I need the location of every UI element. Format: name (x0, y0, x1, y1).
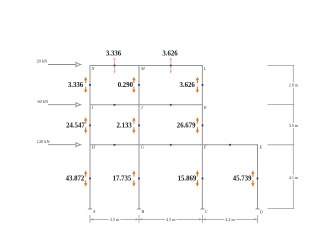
svg-text:4.2 m: 4.2 m (225, 217, 235, 222)
svg-text:I: I (91, 105, 94, 110)
svg-text:60 kN: 60 kN (38, 99, 49, 104)
svg-text:D: D (259, 209, 264, 214)
svg-text:3.626: 3.626 (180, 82, 196, 89)
svg-text:J: J (141, 105, 144, 110)
svg-text:3.336: 3.336 (68, 82, 84, 89)
svg-text:45.739: 45.739 (233, 176, 252, 183)
svg-text:43.872: 43.872 (66, 176, 85, 183)
svg-text:24.547: 24.547 (66, 123, 85, 130)
svg-text:4.5 m: 4.5 m (166, 217, 176, 222)
svg-text:4.1 m: 4.1 m (289, 175, 299, 180)
svg-text:M: M (140, 66, 145, 71)
svg-text:26.679: 26.679 (177, 123, 196, 130)
svg-text:A: A (92, 209, 96, 214)
svg-text:2.8 m: 2.8 m (289, 83, 299, 88)
svg-text:K: K (203, 105, 208, 110)
svg-text:N: N (91, 66, 96, 71)
svg-text:3.336: 3.336 (106, 51, 122, 58)
svg-text:0.290: 0.290 (118, 82, 134, 89)
svg-text:3.5 m: 3.5 m (289, 123, 299, 128)
svg-text:3.5 m: 3.5 m (110, 217, 120, 222)
svg-text:F: F (203, 145, 207, 150)
svg-text:H: H (91, 145, 96, 150)
svg-text:E: E (259, 145, 263, 150)
svg-text:15.869: 15.869 (178, 176, 197, 183)
svg-text:L: L (203, 66, 207, 71)
svg-text:120 kN: 120 kN (37, 139, 50, 144)
svg-text:17.735: 17.735 (113, 176, 132, 183)
svg-text:3.626: 3.626 (162, 51, 178, 58)
svg-text:2.133: 2.133 (117, 123, 133, 130)
svg-text:G: G (141, 145, 145, 150)
svg-text:20 kN: 20 kN (37, 59, 48, 64)
svg-text:B: B (142, 209, 145, 214)
svg-text:C: C (205, 209, 208, 214)
